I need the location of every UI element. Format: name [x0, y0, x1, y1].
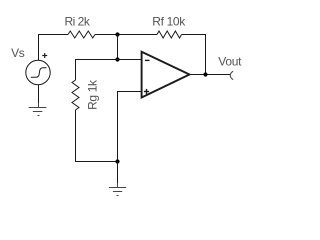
- wire: ground node stub down: [117, 162, 119, 184]
- wire: Vs top lead up and right to Ri: [39, 35, 69, 61]
- wire: node A down to inverting input rail: [117, 35, 119, 60]
- plus polarity mark: [42, 55, 47, 57]
- svg-text:Ri 2k: Ri 2k: [65, 15, 91, 29]
- wire: inverting input rail (Rg corner to op-amp minus input): [76, 60, 142, 81]
- node B junction dot (inverting input rail): [115, 57, 119, 61]
- node A junction dot (top): [115, 32, 119, 36]
- wire: Ri to Rf through node A: [95, 34, 157, 36]
- wire: Rg bottom down and right to ground node: [76, 110, 118, 162]
- voltage source Vs: [26, 53, 50, 85]
- svg-text:Rg 1k: Rg 1k: [85, 79, 99, 110]
- node C junction dot (ground node): [115, 159, 119, 163]
- wire: Vs bottom lead down to ground: [38, 85, 40, 103]
- node D junction dot (output node): [203, 72, 207, 76]
- wire: non-inverting input from op-amp down to ground node: [118, 92, 142, 162]
- wire: Rf right side down to output node: [182, 35, 206, 75]
- Vout port symbol: [230, 71, 233, 79]
- plus input symbol: [144, 91, 149, 93]
- op-amp U1: [142, 52, 190, 98]
- resistor Rf (zigzag): [157, 31, 182, 38]
- svg-text:Vout: Vout: [218, 54, 242, 68]
- resistor Rg (vertical zigzag): [72, 80, 79, 110]
- minus input symbol: [145, 59, 150, 61]
- wire: op-amp output to Vout port: [190, 74, 231, 76]
- svg-text:Rf 10k: Rf 10k: [152, 15, 186, 29]
- ground (under Vs): [29, 103, 47, 116]
- svg-text:Vs: Vs: [11, 46, 25, 60]
- resistor Ri (zigzag): [68, 31, 95, 38]
- sigmoid waveform inside source: [31, 68, 47, 78]
- ground (bottom middle): [109, 183, 126, 196]
